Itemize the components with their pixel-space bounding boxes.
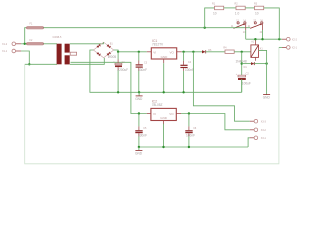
- wire bus2 to X3-1: [248, 138, 250, 147]
- node coil branch: [241, 51, 243, 53]
- wire secondary top to bridge: [70, 43, 104, 45]
- wire R4 to relay coil: [234, 51, 251, 53]
- wire IC2 gnd to bus2: [163, 124, 165, 147]
- node primary bottom junction: [28, 63, 30, 65]
- node C6 top: [188, 112, 190, 114]
- fuse F2: [27, 39, 44, 45]
- node C3 top: [138, 51, 140, 53]
- wire X2-2 line: [246, 38, 282, 40]
- node R chain bottom: [204, 27, 206, 29]
- svg-text:330nF: 330nF: [138, 68, 147, 72]
- node R3 chain end: [278, 38, 280, 40]
- node coil top: [254, 38, 256, 40]
- wire down to D1 and C2: [241, 52, 243, 75]
- connector X3-3: [254, 119, 266, 123]
- node X1-2/F1 junction: [24, 43, 26, 45]
- connector X1-1: [2, 49, 16, 53]
- node C1 top: [117, 51, 119, 53]
- svg-text:X3-3: X3-3: [261, 120, 267, 123]
- svg-text:CW48-5: CW48-5: [53, 36, 62, 39]
- node D1 right: [265, 62, 267, 64]
- wire R chain riser: [205, 8, 215, 28]
- wire bridge top corner stub: [103, 42, 105, 44]
- IC2 regulator 78L05: [147, 100, 181, 125]
- resistor R3: [254, 2, 264, 15]
- svg-text:X2-2: X2-2: [292, 38, 298, 41]
- wire X2-1 stub: [279, 46, 282, 48]
- node contact2 NO: [261, 38, 263, 40]
- svg-text:VO: VO: [170, 50, 175, 54]
- svg-text:X2-1: X2-1: [292, 47, 298, 50]
- ground GND3: [135, 147, 143, 156]
- capacitor C4: [180, 52, 194, 93]
- wire IC1 output rail: [182, 51, 203, 53]
- gnd bus1 junction nodes: [117, 91, 119, 93]
- wire y64.3 primary bottom: [25, 63, 57, 65]
- svg-text:X1-2: X1-2: [2, 43, 8, 46]
- node +12V branch: [192, 51, 194, 53]
- svg-text:78L05Z: 78L05Z: [152, 103, 163, 107]
- wire y27.7 from F1 to relay contacts: [44, 27, 234, 29]
- resistor R1: [212, 2, 224, 15]
- capacitor C5: [135, 114, 147, 148]
- relay coil K1: [251, 39, 263, 61]
- svg-text:VI: VI: [153, 112, 156, 116]
- svg-text:X3-2: X3-2: [261, 129, 267, 132]
- resistor R2: [235, 2, 246, 15]
- connector X1-2: [2, 42, 16, 46]
- connector X2-1: [287, 46, 298, 50]
- wire bridge minus down to gnd bus: [90, 50, 242, 92]
- svg-text:100nF: 100nF: [185, 68, 194, 72]
- svg-text:10: 10: [255, 12, 259, 16]
- svg-text:VO: VO: [169, 112, 174, 116]
- wire R2-R3: [245, 7, 254, 9]
- wire top branch elbow from F1 down to X1-2 node: [25, 28, 26, 44]
- capacitor C1: [113, 52, 128, 93]
- wire center tap to IC2 input: [71, 62, 147, 113]
- svg-text:1.0: 1.0: [235, 12, 240, 16]
- wire R3 down to X2-2 line: [264, 8, 280, 39]
- svg-text:VI: VI: [153, 50, 156, 54]
- relay contact K1-2: [248, 19, 264, 28]
- svg-text:X3-1: X3-1: [261, 137, 267, 140]
- svg-text:100uF: 100uF: [242, 82, 251, 86]
- wire X1-1 to primary bottom: [16, 50, 21, 52]
- transformer TR1: [53, 36, 77, 64]
- svg-text:GND: GND: [160, 116, 168, 120]
- svg-text:X1-1: X1-1: [2, 50, 8, 53]
- diode D6: [202, 49, 212, 54]
- IC1 regulator 7812: [147, 39, 182, 63]
- bus2 junction nodes: [138, 146, 140, 148]
- svg-text:10: 10: [213, 12, 217, 16]
- ground GND1: [135, 92, 143, 101]
- svg-text:7812TV: 7812TV: [152, 43, 164, 47]
- svg-text:1N4148: 1N4148: [236, 59, 247, 63]
- svg-text:100nF: 100nF: [186, 134, 195, 138]
- wire secondary bottom to bridge: [70, 58, 105, 64]
- wire R1-R2: [224, 7, 236, 9]
- wire contact K1-2 NO down: [262, 24, 264, 30]
- wire +12V down to X3-3: [193, 52, 249, 121]
- wire gnd bus2: [139, 146, 248, 148]
- wire F2 to transformer primary top: [44, 43, 58, 45]
- wire bridge plus output rail: [114, 50, 147, 52]
- svg-text:GND: GND: [161, 55, 169, 59]
- bridge rectifier B1: [93, 42, 116, 59]
- resistor R4: [223, 47, 234, 54]
- svg-text:GND: GND: [135, 97, 143, 101]
- wire IC1 gnd to bus: [163, 63, 165, 92]
- wire pale return loop X1-1 to X2-1: [25, 47, 279, 163]
- svg-text:GND: GND: [263, 96, 271, 100]
- svg-text:2200uF: 2200uF: [117, 68, 128, 72]
- diode D1: [236, 59, 267, 69]
- wire IC2 output to X3-2: [181, 114, 250, 130]
- wire contact K1-1 NO down: [245, 24, 247, 30]
- wire between contact commons: [234, 27, 251, 29]
- svg-text:330nF: 330nF: [138, 134, 147, 138]
- svg-text:GND: GND: [135, 152, 143, 156]
- node D1 left: [241, 62, 243, 64]
- connector X2-2: [287, 37, 298, 41]
- connector X3-2: [254, 128, 266, 132]
- wire X1-2 to F2: [16, 43, 21, 45]
- wire coil right side to gnd: [259, 50, 267, 94]
- svg-text:W005: W005: [108, 55, 117, 59]
- relay contact K1-1: [231, 19, 247, 28]
- wire D6 to R4: [206, 51, 226, 53]
- ground GND2: [263, 95, 271, 100]
- capacitor C3: [136, 52, 148, 93]
- node C5 branch: [138, 112, 140, 114]
- fuse F1: [27, 22, 44, 29]
- capacitor C2: [236, 73, 251, 93]
- capacitor C6: [185, 114, 197, 148]
- node C4 top: [182, 51, 184, 53]
- wire C2 bottom riser: [241, 79, 243, 92]
- connector X3-1: [254, 136, 266, 140]
